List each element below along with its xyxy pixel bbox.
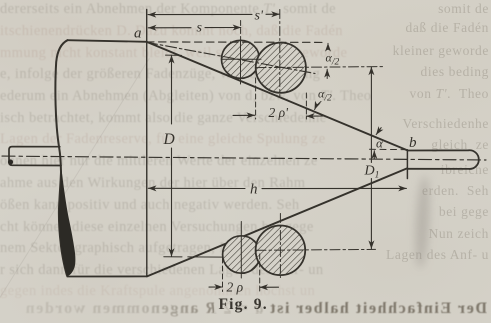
svg-text:Fig. 9.: Fig. 9. bbox=[219, 296, 268, 313]
svg-text:2 ρ: 2 ρ bbox=[227, 280, 244, 295]
s dimension bbox=[148, 27, 191, 29]
2rho dimension arrows bbox=[209, 286, 222, 288]
right face vertical bbox=[406, 150, 408, 179]
bottom wheels auxiliary verticals bbox=[240, 222, 242, 279]
alpha/2 lower leader bbox=[315, 102, 321, 110]
D dimension bbox=[171, 55, 173, 124]
vertical dashed at small-wheel centre bbox=[240, 21, 242, 41]
vertical dash-dot at big-wheel centre bbox=[279, 10, 281, 97]
2rho' dimension arrows bbox=[233, 114, 255, 116]
Fig. 9. caption bbox=[214, 296, 266, 313]
svg-text:D: D bbox=[163, 131, 175, 148]
left shaft bbox=[9, 147, 61, 166]
cone top generator a-b bbox=[147, 42, 408, 151]
svg-text:s': s' bbox=[255, 9, 264, 24]
vertical dashed tangents of big wheel (2rho') bbox=[255, 78, 257, 119]
workpiece left profile curve bbox=[55, 40, 67, 275]
svg-text:α: α bbox=[376, 136, 384, 151]
svg-text:2 ρ': 2 ρ' bbox=[269, 105, 290, 120]
alpha angle marks near b bbox=[370, 148, 405, 150]
horizontal dash-dot through bottom big wheel centre bbox=[256, 248, 376, 251]
bottom small grinding wheel bbox=[223, 236, 260, 273]
h dimension bbox=[148, 187, 245, 189]
svg-text:α/2: α/2 bbox=[318, 87, 332, 104]
dark mirrored bottom show-through line bbox=[2, 300, 487, 318]
workpiece top edge bbox=[68, 40, 147, 42]
right grey smudge bbox=[414, 176, 432, 269]
cone bottom generator bbox=[147, 168, 407, 276]
top large grinding wheel bbox=[256, 43, 306, 93]
svg-text:b: b bbox=[409, 135, 417, 151]
D1 dimension bbox=[370, 67, 372, 163]
bottom large grinding wheel bbox=[256, 226, 306, 276]
horizontal line through small wheel centre bbox=[222, 58, 262, 60]
faint diagonal scratch bbox=[0, 58, 150, 323]
svg-text:s: s bbox=[197, 21, 203, 36]
center axis (dash-dot) bbox=[2, 156, 486, 160]
left face vertical (with extension up to dimension lines) bbox=[146, 10, 148, 277]
s' dimension bbox=[148, 13, 252, 15]
left shaft corner ink blob bbox=[8, 159, 13, 164]
horizontal dash-dot through big wheel centre bbox=[256, 67, 385, 68]
workpiece bottom edge bbox=[67, 275, 147, 277]
svg-text:a: a bbox=[134, 26, 142, 42]
alpha/2 upper arrows bbox=[327, 43, 329, 49]
teardrop ink blob bbox=[59, 169, 75, 276]
top dashed extension line from a bbox=[147, 41, 326, 44]
ghost show-through text rows bbox=[0, 1, 404, 18]
bisector dash-dot from a through wheel centres bbox=[147, 42, 316, 73]
right shaft with round cap bbox=[408, 150, 479, 169]
svg-text:h: h bbox=[250, 182, 258, 198]
svg-text:α/2: α/2 bbox=[326, 51, 340, 68]
svg-text:D1: D1 bbox=[364, 164, 380, 181]
top small grinding wheel 2rho' position 1 bbox=[222, 40, 260, 78]
darker right-column overlay fragments bbox=[438, 1, 489, 17]
